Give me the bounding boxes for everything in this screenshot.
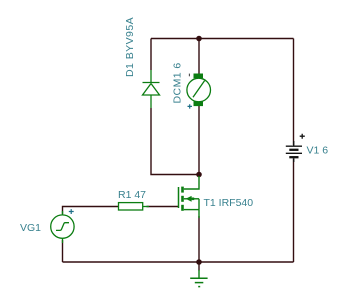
node top junction dot — [196, 36, 202, 42]
wire VG1 bottom to rail — [62, 240, 64, 262]
wire right branch upper (to battery) — [293, 39, 295, 146]
source down stub — [198, 210, 200, 218]
channel body tick — [181, 196, 184, 202]
svg-text:D1 BYV95A: D1 BYV95A — [124, 17, 136, 77]
channel source tick — [181, 205, 184, 211]
svg-text:DCM1 6: DCM1 6 — [172, 62, 184, 103]
resistor right stub — [143, 206, 149, 208]
wire VG1 top to gate resistor — [63, 207, 119, 215]
svg-text:VG1: VG1 — [20, 222, 41, 234]
source lead — [184, 209, 199, 211]
drain lead — [184, 176, 199, 189]
source VG1 — [51, 211, 74, 243]
VG1 plus mark — [69, 209, 74, 214]
resistor R1 — [119, 203, 143, 210]
motor plus mark — [188, 104, 193, 108]
svg-text:R1 47: R1 47 — [118, 189, 146, 201]
motor minus mark — [188, 74, 190, 77]
node bottom junction dot — [196, 259, 202, 265]
wire left branch upper (to diode) — [150, 39, 152, 71]
wire left branch lower (diode to drain node) — [151, 108, 199, 175]
channel drain tick — [181, 187, 184, 193]
wire bottom rail — [63, 261, 294, 263]
diode D1 — [143, 70, 160, 108]
right vertical lead — [198, 199, 200, 210]
wire top rail — [151, 38, 294, 40]
svg-text:T1 IRF540: T1 IRF540 — [204, 197, 254, 209]
battery plus mark — [300, 134, 305, 139]
gate bar — [178, 187, 180, 208]
battery V1 — [286, 141, 302, 162]
motor DCM1 — [187, 74, 211, 107]
wire source to bottom rail — [198, 216, 200, 262]
wire ground stub — [198, 262, 200, 271]
transistor T1 (NMOS) — [179, 176, 200, 218]
node drain junction dot — [196, 172, 202, 178]
svg-text:V1 6: V1 6 — [307, 145, 329, 157]
wire motor branch lower — [198, 106, 200, 175]
wire motor branch upper — [198, 39, 200, 75]
body arrow — [186, 196, 192, 202]
wire resistor to gate — [147, 206, 179, 208]
wire right branch lower (battery to bottom rail) — [293, 159, 295, 263]
body lead — [184, 198, 199, 200]
ground — [190, 270, 207, 287]
